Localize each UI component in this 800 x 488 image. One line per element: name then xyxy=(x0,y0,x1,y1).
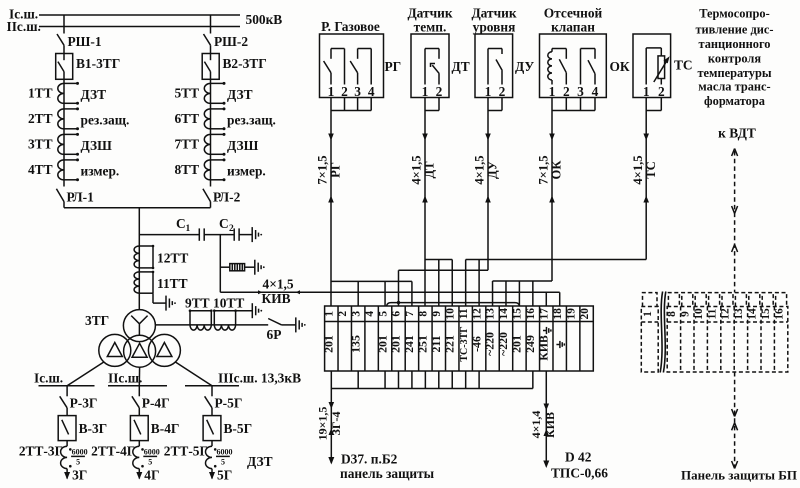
label к ВДТ xyxy=(718,126,756,141)
svg-text:13: 13 xyxy=(733,308,745,320)
CT 11ТТ xyxy=(134,271,187,294)
svg-text:РГ: РГ xyxy=(385,59,402,74)
svg-text:4×1,5: 4×1,5 xyxy=(263,277,294,292)
svg-text:IIс.ш.: IIс.ш. xyxy=(108,371,142,386)
svg-text:темп.: темп. xyxy=(414,20,447,35)
CT 7ТТ xyxy=(174,133,258,156)
label 500кВ xyxy=(246,12,283,27)
CT 10ТТ xyxy=(213,296,244,331)
capacitor C2 xyxy=(204,216,239,241)
disconnector Р-5Г xyxy=(205,386,243,416)
svg-text:1: 1 xyxy=(186,224,191,234)
svg-text:ДУ: ДУ xyxy=(486,161,500,179)
svg-text:18: 18 xyxy=(552,308,564,320)
svg-text:рез.защ.: рез.защ. xyxy=(81,112,130,127)
ground after 6Р xyxy=(296,317,306,332)
wire ОК box terminals joint xyxy=(552,98,595,111)
disconnector Р-4Г xyxy=(132,386,170,416)
svg-text:201: 201 xyxy=(322,335,336,353)
ground of 9ТТ/10ТТ secondaries xyxy=(236,303,263,318)
svg-text:201: 201 xyxy=(375,335,389,353)
svg-text:201: 201 xyxy=(510,335,524,353)
svg-text:19×1,5: 19×1,5 xyxy=(315,407,329,441)
svg-text:РГ: РГ xyxy=(329,162,343,178)
svg-text:12: 12 xyxy=(471,308,483,320)
cable 4x1,5 ДТ xyxy=(410,111,437,307)
svg-text:3Г: 3Г xyxy=(72,468,87,483)
CT 2ТТ xyxy=(28,107,129,130)
svg-text:Датчик: Датчик xyxy=(471,6,516,21)
cable 7x1,5 ОК xyxy=(537,111,564,282)
svg-text:ТПС-0,66: ТПС-0,66 xyxy=(551,466,608,481)
svg-text:6ТТ: 6ТТ xyxy=(174,111,199,126)
cable 19x1,5 ЗГ-4 to panel D37 xyxy=(315,389,343,465)
wire ТС fan to terminals 11 12 xyxy=(466,260,647,307)
CT 4ТТ xyxy=(28,158,119,181)
disconnector РЛ-2 xyxy=(203,189,241,208)
cable 4x1,5 ДУ xyxy=(473,111,500,271)
svg-text:Панель защиты БП: Панель защиты БП xyxy=(681,468,797,483)
svg-text:КИВ: КИВ xyxy=(262,291,291,306)
svg-text:танционного: танционного xyxy=(698,37,770,51)
line from delta b to IIс.ш. xyxy=(138,367,140,386)
svg-text:4×1,5: 4×1,5 xyxy=(410,155,424,184)
svg-text:2: 2 xyxy=(563,84,570,99)
svg-text:РЛ-1: РЛ-1 xyxy=(67,190,94,205)
svg-text:ДЗТ: ДЗТ xyxy=(227,87,253,102)
svg-text:16: 16 xyxy=(525,308,537,320)
svg-text:ДЗТ: ДЗТ xyxy=(247,454,273,469)
svg-text:ДТ: ДТ xyxy=(423,161,437,179)
svg-text:В1-3ТГ: В1-3ТГ xyxy=(76,56,120,71)
ground after C2 xyxy=(239,227,262,242)
svg-text:Термосопро-: Термосопро- xyxy=(699,6,770,20)
CT 2ТТ-4Г 6000/5 xyxy=(91,441,160,469)
label РГ xyxy=(385,59,402,74)
sensor box Датчик темп. xyxy=(407,6,452,100)
svg-text:10: 10 xyxy=(444,308,456,320)
svg-text:1: 1 xyxy=(642,311,654,317)
wire РГ fan to terminals 3 5 7 xyxy=(331,281,412,306)
svg-text:КИВ: КИВ xyxy=(543,412,557,438)
svg-text:12: 12 xyxy=(720,308,732,320)
transformer 3ТГ delta winding a xyxy=(99,334,131,366)
svg-text:7ТТ: 7ТТ xyxy=(174,137,199,152)
svg-text:Iс.ш.: Iс.ш. xyxy=(34,371,63,386)
bus IIс.ш. xyxy=(108,371,167,386)
label D37. п.Б2 панель защиты xyxy=(340,452,435,482)
svg-text:масла транс-: масла транс- xyxy=(698,80,770,94)
svg-text:4×1,5: 4×1,5 xyxy=(473,155,487,184)
wire ТС box terminals joint xyxy=(646,98,661,111)
svg-text:клапан: клапан xyxy=(551,20,595,35)
svg-text:С: С xyxy=(219,216,229,231)
label ДУ xyxy=(515,59,534,74)
svg-text:-46: -46 xyxy=(469,336,483,352)
feeder output arrow 4Г xyxy=(136,468,159,483)
disconnector РШ-1 xyxy=(57,34,102,54)
break squiggle between dashed cells 1 and 8 xyxy=(660,292,666,373)
svg-text:16: 16 xyxy=(773,308,785,320)
svg-text:11ТТ: 11ТТ xyxy=(157,276,188,291)
svg-text:1ТТ: 1ТТ xyxy=(28,86,53,101)
svg-text:Р-4Г: Р-4Г xyxy=(142,396,170,411)
label ТС xyxy=(674,58,693,73)
svg-text:12ТТ: 12ТТ xyxy=(157,251,188,266)
svg-text:Датчик: Датчик xyxy=(407,6,452,21)
svg-text:11: 11 xyxy=(706,308,718,319)
wire ДУ fan to terminal 6 xyxy=(398,270,488,306)
svg-text:9: 9 xyxy=(680,311,692,317)
svg-text:контроля: контроля xyxy=(708,52,761,66)
switch 6Р xyxy=(267,319,296,343)
CT 12ТТ xyxy=(134,245,188,270)
svg-text:2ТТ: 2ТТ xyxy=(28,111,53,126)
svg-text:измер.: измер. xyxy=(227,163,266,178)
CT 2ТТ-3Г 6000/5 xyxy=(19,441,88,469)
terminal block ХТ numbers row 1-20 xyxy=(324,306,594,371)
svg-text:15: 15 xyxy=(760,308,772,320)
svg-text:ЗГ-4: ЗГ-4 xyxy=(329,412,343,436)
svg-text:ТС-3ТГ: ТС-3ТГ xyxy=(459,326,470,361)
svg-text:~220: ~220 xyxy=(483,332,497,356)
svg-text:6000: 6000 xyxy=(72,448,88,457)
wire РГ box terminals joint xyxy=(331,98,371,111)
svg-text:211: 211 xyxy=(429,335,443,352)
svg-text:РШ-2: РШ-2 xyxy=(214,34,248,49)
wire ДТ fan to terminals 9 10 xyxy=(425,260,452,307)
svg-text:201: 201 xyxy=(389,335,403,353)
wire through CT string xyxy=(63,79,65,186)
svg-text:ДЗТ: ДЗТ xyxy=(81,87,107,102)
cable 7x1,5 РГ xyxy=(316,111,343,307)
wire branch drop from bus xyxy=(210,15,212,34)
disconnector РЛ-1 xyxy=(56,189,93,208)
svg-text:ОК: ОК xyxy=(610,59,630,74)
svg-text:рез.защ.: рез.защ. xyxy=(227,112,276,127)
svg-text:500кВ: 500кВ xyxy=(246,12,283,27)
transformer 3ТГ star winding xyxy=(85,310,155,342)
svg-text:5: 5 xyxy=(221,458,225,467)
svg-text:6000: 6000 xyxy=(217,448,233,457)
ground of 11ТТ/12ТТ secondaries xyxy=(153,293,176,310)
svg-text:135: 135 xyxy=(348,335,362,353)
svg-text:ТС: ТС xyxy=(644,161,658,179)
svg-text:3ТГ: 3ТГ xyxy=(85,313,109,328)
svg-text:15: 15 xyxy=(512,308,524,320)
wire junction drop between C1 and C2 xyxy=(219,235,221,293)
svg-text:РШ-1: РШ-1 xyxy=(68,34,102,49)
wire ДТ box terminals joint xyxy=(425,98,439,111)
svg-text:20: 20 xyxy=(579,308,591,320)
CT 6ТТ xyxy=(174,107,275,130)
svg-text:1: 1 xyxy=(422,84,429,99)
svg-text:4Г: 4Г xyxy=(144,468,159,483)
line from delta a to Iс.ш. xyxy=(67,362,104,386)
label Панель защиты БП xyxy=(681,468,797,483)
svg-text:13: 13 xyxy=(485,308,497,320)
svg-text:D37. п.Б2: D37. п.Б2 xyxy=(341,452,398,467)
transformer 3ТГ delta winding c xyxy=(148,334,180,366)
CT 5ТТ xyxy=(174,82,252,105)
svg-text:7×1,5: 7×1,5 xyxy=(316,155,330,184)
CT 9ТТ xyxy=(185,296,213,331)
svg-text:измер.: измер. xyxy=(81,163,120,178)
svg-text:2: 2 xyxy=(229,224,234,234)
svg-text:4ТТ: 4ТТ xyxy=(28,162,53,177)
svg-text:4: 4 xyxy=(364,311,376,317)
svg-text:8ТТ: 8ТТ xyxy=(174,162,199,177)
svg-text:241: 241 xyxy=(402,335,416,353)
svg-text:3: 3 xyxy=(350,311,362,317)
note Термосопротивление дистанционного контроля температуры масла трансформатора xyxy=(695,6,773,108)
svg-text:6: 6 xyxy=(391,311,403,317)
wire КИВ drops to terminals 17 18 xyxy=(546,292,559,306)
jumper bracket terminals 5-15 xyxy=(387,301,520,306)
svg-text:5ТТ: 5ТТ xyxy=(174,86,199,101)
svg-text:5: 5 xyxy=(76,458,80,467)
svg-text:ДЗШ: ДЗШ xyxy=(81,138,113,153)
svg-text:2ТТ-5Г: 2ТТ-5Г xyxy=(164,443,208,458)
line from delta c to IIIс.ш. xyxy=(175,362,212,386)
svg-text:РЛ-2: РЛ-2 xyxy=(213,190,241,205)
svg-text:14: 14 xyxy=(498,308,510,320)
svg-text:IIс.ш.: IIс.ш. xyxy=(7,19,41,34)
svg-text:4: 4 xyxy=(592,84,599,99)
svg-text:221: 221 xyxy=(442,335,456,353)
sensor box Датчик уровня xyxy=(471,6,516,100)
breaker В1-3ТГ xyxy=(56,54,121,80)
svg-text:3ТТ: 3ТТ xyxy=(28,137,53,152)
svg-text:В-3Г: В-3Г xyxy=(79,421,108,436)
svg-text:В-5Г: В-5Г xyxy=(224,421,253,436)
svg-text:2: 2 xyxy=(341,84,348,99)
svg-text:4×1,4: 4×1,4 xyxy=(529,411,543,439)
transformer 3ТГ delta winding b xyxy=(124,335,156,367)
CT 2ТТ-5Г 6000/5 xyxy=(164,441,233,469)
svg-text:панель защиты: панель защиты xyxy=(340,466,435,481)
svg-text:7: 7 xyxy=(404,311,416,317)
svg-text:Р. Газовое: Р. Газовое xyxy=(321,19,380,34)
svg-text:форматора: форматора xyxy=(704,94,765,108)
svg-text:к ВДТ: к ВДТ xyxy=(718,126,756,141)
svg-text:Р-3Г: Р-3Г xyxy=(70,396,98,411)
wire branch drop from bus xyxy=(63,15,65,34)
CT 8ТТ xyxy=(174,158,265,181)
cable 4x1,5 ТС xyxy=(631,111,658,260)
svg-text:2: 2 xyxy=(337,311,349,317)
svg-text:ДТ: ДТ xyxy=(452,59,470,74)
svg-text:5: 5 xyxy=(148,458,152,467)
disconnector РШ-2 xyxy=(204,34,249,54)
svg-text:тивление дис-: тивление дис- xyxy=(695,22,773,36)
svg-text:19: 19 xyxy=(565,308,577,320)
wire main vertical to transformer xyxy=(138,208,140,310)
svg-text:11: 11 xyxy=(458,308,470,319)
svg-text:1: 1 xyxy=(643,84,650,99)
breaker В-3Г xyxy=(58,416,107,441)
svg-text:10: 10 xyxy=(693,308,705,320)
svg-text:8: 8 xyxy=(418,311,430,317)
svg-text:D 42: D 42 xyxy=(565,450,592,465)
thermistor box ТС xyxy=(633,34,671,99)
svg-text:2: 2 xyxy=(436,84,443,99)
svg-text:249: 249 xyxy=(523,335,537,353)
label 4х1,5 КИВ xyxy=(262,277,294,306)
svg-text:9ТТ: 9ТТ xyxy=(185,296,210,311)
wire ОК fan to terminals 13 14 15 16 xyxy=(493,281,552,306)
svg-text:5: 5 xyxy=(377,311,389,317)
valve box Отсечной клапан xyxy=(540,6,607,100)
label ДТ xyxy=(452,59,470,74)
svg-text:3: 3 xyxy=(354,84,361,99)
wire stubs from terminal block to cable bus xyxy=(331,371,533,389)
svg-text:251: 251 xyxy=(416,335,430,353)
terminal block wire labels xyxy=(322,326,565,361)
svg-text:1: 1 xyxy=(328,84,335,99)
svg-text:В-4Г: В-4Г xyxy=(151,421,180,436)
svg-text:ДЗШ: ДЗШ xyxy=(227,138,259,153)
svg-text:4×1,5: 4×1,5 xyxy=(631,155,645,184)
wire ДУ box terminals joint xyxy=(488,98,502,111)
wire neutral to 9ТТ 10ТТ xyxy=(155,324,268,326)
dashed cable к ВДТ lower to panel xyxy=(732,372,738,469)
dashed cable к ВДТ upper xyxy=(732,149,738,293)
svg-text:В2-3ТГ: В2-3ТГ xyxy=(223,56,267,71)
bus IIIс.ш. 13,3кВ xyxy=(185,371,301,386)
label ДЗТ xyxy=(247,454,273,469)
bus IIс.ш. 500кВ xyxy=(7,19,241,34)
breaker В2-3ТГ xyxy=(202,54,267,80)
wire through CT string xyxy=(210,79,212,186)
svg-text:температуры: температуры xyxy=(697,66,771,80)
svg-text:7×1,5: 7×1,5 xyxy=(537,155,551,184)
svg-text:Отсечной: Отсечной xyxy=(544,6,603,21)
svg-text:1: 1 xyxy=(485,84,492,99)
svg-text:4: 4 xyxy=(368,84,375,99)
svg-text:КИВ: КИВ xyxy=(536,335,550,361)
bus Iс.ш. 500кВ xyxy=(9,7,240,22)
svg-text:10ТТ: 10ТТ xyxy=(213,296,244,311)
svg-text:2: 2 xyxy=(658,84,665,99)
svg-text:2ТТ-3Г: 2ТТ-3Г xyxy=(19,443,63,458)
svg-text:~220: ~220 xyxy=(496,332,510,356)
label D 42 ТПС-0,66 xyxy=(551,450,608,481)
svg-text:14: 14 xyxy=(747,308,759,320)
svg-text:ОК: ОК xyxy=(550,160,564,180)
svg-text:ТС: ТС xyxy=(674,58,693,73)
capacitor C1 xyxy=(139,216,204,241)
svg-text:5Г: 5Г xyxy=(217,468,232,483)
svg-text:1: 1 xyxy=(324,311,336,317)
relay box Р. Газовое xyxy=(320,19,384,99)
svg-text:8: 8 xyxy=(666,311,678,317)
bus Iс.ш. xyxy=(34,371,95,386)
CT 3ТТ xyxy=(28,133,112,156)
svg-text:9: 9 xyxy=(431,311,443,317)
svg-text:IIIс.ш. 13,3кВ: IIIс.ш. 13,3кВ xyxy=(218,371,301,386)
remote terminal block (dashed) cells 1, 8-16 xyxy=(641,293,788,372)
feeder output arrow 3Г xyxy=(64,468,87,483)
svg-text:уровня: уровня xyxy=(473,20,516,35)
CT 1ТТ xyxy=(28,82,106,105)
breaker В-4Г xyxy=(130,416,179,441)
feeder output arrow 5Г xyxy=(209,468,232,483)
breaker В-5Г xyxy=(203,416,252,441)
wire merge of branches xyxy=(64,207,211,209)
svg-text:2ТТ-4Г: 2ТТ-4Г xyxy=(91,443,135,458)
disconnector Р-3Г xyxy=(60,386,98,416)
wire net КИВ 4x1,5 xyxy=(220,290,559,294)
svg-text:Р-5Г: Р-5Г xyxy=(215,396,243,411)
svg-text:6Р: 6Р xyxy=(267,327,282,342)
svg-text:2: 2 xyxy=(499,84,506,99)
cable 4x1,4 КИВ to D42 xyxy=(529,371,557,468)
ground after resistor xyxy=(255,260,265,275)
svg-text:3: 3 xyxy=(577,84,584,99)
svg-text:ДУ: ДУ xyxy=(515,59,534,74)
svg-text:1: 1 xyxy=(549,84,556,99)
svg-text:17: 17 xyxy=(538,308,550,320)
svg-text:С: С xyxy=(176,216,186,231)
label ОК xyxy=(610,59,630,74)
resistor (surge) to ground xyxy=(220,264,255,271)
svg-text:6000: 6000 xyxy=(144,448,160,457)
